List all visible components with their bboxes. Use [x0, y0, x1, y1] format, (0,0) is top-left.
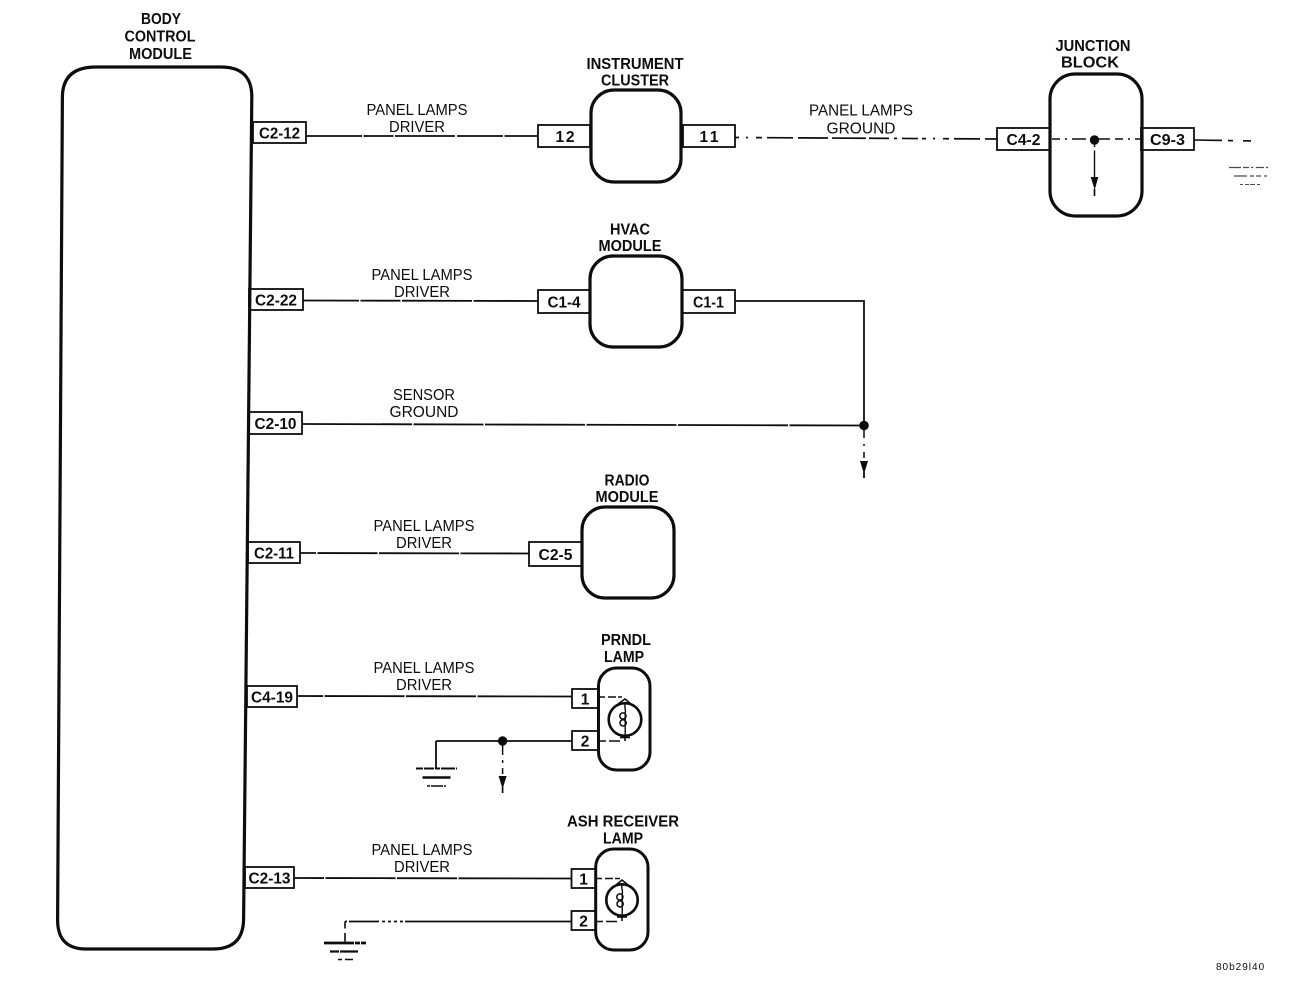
connector C2-12 on BCM	[253, 122, 306, 143]
connector C4-2 junction block	[997, 128, 1050, 150]
svg-text:C2-13: C2-13	[249, 871, 291, 888]
svg-text:BLOCK: BLOCK	[1061, 55, 1119, 72]
wire C9-3 to right ground	[1194, 140, 1252, 141]
arrow to ground inside junction block	[1091, 144, 1099, 196]
svg-text:ASH RECEIVER: ASH RECEIVER	[567, 814, 679, 831]
label INSTRUMENT CLUSTER	[587, 56, 684, 90]
connector C1-1 HVAC module	[682, 290, 735, 313]
svg-text:C9-3: C9-3	[1150, 132, 1185, 149]
label PANEL LAMPS DRIVER (row 3)	[374, 518, 475, 552]
svg-text:JUNCTION: JUNCTION	[1056, 38, 1131, 55]
pin 2 PRNDL lamp	[572, 731, 599, 751]
svg-text:C1-1: C1-1	[693, 295, 724, 312]
svg-text:C4-2: C4-2	[1007, 132, 1041, 149]
svg-text:C2-10: C2-10	[255, 416, 297, 433]
module BCM body control module outline	[58, 67, 252, 949]
label PANEL LAMPS GROUND	[809, 103, 913, 138]
svg-text:C1-4: C1-4	[548, 295, 581, 312]
wire pin 2 ash receiver to ground	[345, 922, 571, 942]
connector C4-19 on BCM	[247, 686, 297, 707]
svg-text:PANEL LAMPS: PANEL LAMPS	[374, 660, 475, 677]
label PRNDL LAMP	[601, 632, 651, 666]
svg-text:GROUND: GROUND	[827, 121, 896, 138]
junction node dot sensor ground	[859, 421, 869, 431]
label PANEL LAMPS DRIVER (row 5)	[372, 842, 473, 876]
label ASH RECEIVER LAMP	[567, 814, 679, 848]
svg-text:DRIVER: DRIVER	[396, 535, 452, 552]
connector C2-13 on BCM	[245, 867, 294, 888]
pin 11 instrument cluster	[683, 125, 735, 147]
pin 1 ash receiver lamp	[572, 869, 597, 889]
svg-text:C2-12: C2-12	[259, 126, 300, 143]
ground symbol bottom (earth ground under ash receiver wire)	[324, 943, 366, 960]
svg-text:1: 1	[579, 872, 588, 889]
svg-text:C2-5: C2-5	[539, 547, 573, 564]
svg-text:MODULE: MODULE	[596, 489, 659, 506]
wire panel lamps driver C2-22 to C1-4	[303, 300, 538, 303]
wire panel lamps ground pin 11 to C4-2 (dash-dot)	[735, 138, 997, 140]
module HVAC outline	[590, 256, 682, 347]
junction node dot on PRNDL ground wire	[498, 736, 507, 745]
svg-text:C4-19: C4-19	[251, 690, 293, 707]
svg-text:BODY: BODY	[141, 11, 181, 28]
svg-text:PANEL LAMPS: PANEL LAMPS	[809, 103, 913, 120]
label PANEL LAMPS DRIVER (row 4)	[374, 660, 475, 694]
lamp DS1 PRNDL lamp outline	[599, 668, 651, 770]
svg-text:2: 2	[581, 734, 590, 751]
connector C9-3 junction block	[1141, 128, 1194, 150]
junction node dot inside junction block	[1090, 135, 1099, 144]
wire C1-1 to sensor ground junction (right then down)	[735, 301, 864, 421]
label PANEL LAMPS DRIVER (row 1)	[367, 102, 468, 136]
label JUNCTION BLOCK	[1056, 38, 1131, 72]
lamp DS1 bulb symbol with filament	[599, 697, 641, 741]
pin 2 ash receiver lamp	[572, 911, 597, 931]
wire panel lamps driver C2-13 to pin 1 ash receiver	[294, 877, 571, 880]
label RADIO MODULE	[596, 473, 659, 507]
svg-text:DRIVER: DRIVER	[394, 284, 450, 301]
svg-text:GROUND: GROUND	[390, 404, 459, 421]
svg-text:PANEL LAMPS: PANEL LAMPS	[372, 842, 473, 859]
svg-text:DRIVER: DRIVER	[396, 677, 452, 694]
svg-text:SENSOR: SENSOR	[393, 387, 455, 404]
arrow to ground below PRNDL junction	[499, 745, 507, 793]
label HVAC MODULE	[599, 222, 662, 256]
svg-text:1: 1	[581, 692, 590, 709]
svg-text:11: 11	[700, 129, 719, 146]
wire panel lamps driver C4-19 to pin 1 PRNDL	[297, 695, 572, 698]
ground symbol left (earth ground under PRNDL wire)	[416, 769, 457, 787]
label BODY CONTROL MODULE	[125, 11, 196, 63]
wire panel lamps driver C2-12 to pin 12	[306, 135, 538, 137]
svg-text:MODULE: MODULE	[599, 238, 662, 255]
svg-text:CONTROL: CONTROL	[125, 29, 196, 46]
label SENSOR GROUND	[390, 387, 459, 421]
wire pin 2 PRNDL to ground and arrow	[436, 741, 572, 768]
module junction block outline	[1050, 74, 1142, 216]
connector C2-10 on BCM	[249, 412, 302, 434]
svg-text:RADIO: RADIO	[605, 473, 650, 490]
svg-text:PANEL LAMPS: PANEL LAMPS	[374, 518, 475, 535]
svg-text:DRIVER: DRIVER	[389, 119, 445, 136]
pin 12 instrument cluster	[538, 125, 590, 147]
connector C2-5 radio module	[529, 542, 582, 566]
module radio outline	[582, 507, 674, 598]
wire sensor ground C2-10 to junction	[302, 424, 860, 426]
svg-text:DRIVER: DRIVER	[394, 859, 450, 876]
svg-text:80b29l40: 80b29l40	[1216, 962, 1265, 973]
connector C2-22 on BCM	[249, 289, 303, 310]
module U-IC instrument cluster outline	[591, 90, 681, 182]
connector C1-4 HVAC module	[538, 290, 590, 313]
arrow to ground below sensor ground junction	[860, 430, 868, 478]
svg-text:C2-22: C2-22	[255, 293, 297, 310]
lamp DS2 bulb symbol with filament	[596, 879, 638, 922]
pin 1 PRNDL lamp	[572, 689, 599, 709]
wire panel lamps driver C2-11 to C2-5	[300, 552, 529, 555]
label drawing number 80b29l40	[1216, 962, 1265, 973]
svg-text:HVAC: HVAC	[610, 222, 650, 239]
svg-text:LAMP: LAMP	[603, 831, 643, 848]
ground symbol right (faded chassis ground)	[1229, 168, 1268, 185]
svg-text:2: 2	[579, 914, 588, 931]
svg-text:12: 12	[556, 129, 575, 146]
svg-text:INSTRUMENT: INSTRUMENT	[587, 56, 684, 73]
lamp DS2 ash receiver lamp outline	[596, 849, 648, 950]
svg-text:CLUSTER: CLUSTER	[601, 73, 669, 90]
svg-text:LAMP: LAMP	[604, 649, 644, 666]
svg-text:PANEL LAMPS: PANEL LAMPS	[367, 102, 468, 119]
svg-text:PRNDL: PRNDL	[601, 632, 651, 649]
svg-text:MODULE: MODULE	[129, 46, 192, 63]
label PANEL LAMPS DRIVER (row 2)	[372, 267, 473, 301]
connector C2-11 on BCM	[248, 542, 300, 563]
wire inside junction block (dash-dot through)	[1052, 138, 1140, 140]
svg-text:PANEL LAMPS: PANEL LAMPS	[372, 267, 473, 284]
svg-text:C2-11: C2-11	[254, 546, 294, 563]
